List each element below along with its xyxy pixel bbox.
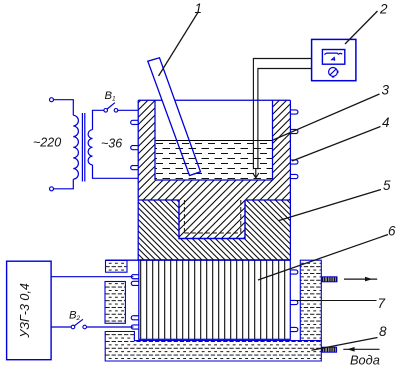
crucible body hatched bbox=[138, 100, 290, 200]
heater hook left 1 bbox=[131, 120, 139, 124]
liquid surface line bbox=[155, 140, 273, 142]
wire UZG top bbox=[51, 276, 133, 278]
svg-text:7: 7 bbox=[378, 296, 386, 311]
liquid in crucible bbox=[155, 141, 273, 180]
svg-text:Вода: Вода bbox=[350, 353, 380, 368]
winding hook left b bbox=[131, 316, 139, 320]
svg-text:~220: ~220 bbox=[33, 136, 61, 150]
svg-text:8: 8 bbox=[379, 324, 387, 339]
wire secondary bottom to furnace bbox=[93, 165, 139, 178]
svg-text:~36: ~36 bbox=[101, 137, 122, 151]
svg-text:1: 1 bbox=[195, 1, 203, 16]
pipe bottom bbox=[322, 347, 337, 352]
leader 3 bbox=[273, 94, 380, 140]
wire primary top bbox=[54, 100, 74, 116]
svg-text:3: 3 bbox=[382, 83, 390, 98]
heater hook left 3 bbox=[131, 166, 139, 170]
winding 6 region bbox=[139, 260, 290, 340]
heater hook left 2 bbox=[131, 146, 139, 150]
arrow water in bbox=[343, 348, 379, 350]
recess outline bbox=[179, 200, 245, 239]
water jacket left A bbox=[106, 260, 128, 272]
heater hook right 4 bbox=[290, 174, 298, 178]
wire secondary top to switch bbox=[93, 110, 104, 129]
block 5 hatched bbox=[138, 200, 290, 260]
switch B2 bbox=[71, 325, 75, 329]
instrument meter face bbox=[322, 50, 344, 65]
instrument U1 box bbox=[312, 39, 356, 80]
leader 1 bbox=[159, 12, 199, 77]
transformer T1 primary winding bbox=[73, 115, 78, 179]
winding hook right a bbox=[290, 270, 298, 274]
water jacket bottom band C bbox=[105, 332, 321, 362]
pipe top bbox=[322, 277, 337, 282]
heater hook right 3 bbox=[290, 160, 298, 164]
block 5 bottom line bbox=[106, 259, 291, 261]
meter scale arc bbox=[324, 53, 342, 54]
wire switch B2 to winding bbox=[87, 326, 134, 328]
thermocouple tip arrow bbox=[253, 169, 259, 178]
heater hook right 2 bbox=[290, 129, 298, 133]
svg-text:2: 2 bbox=[379, 2, 388, 17]
knob bbox=[337, 71, 339, 73]
svg-text:4: 4 bbox=[382, 115, 390, 130]
recess stub hatched bbox=[179, 200, 245, 239]
leader 5 bbox=[279, 190, 381, 221]
leader 6 bbox=[258, 235, 388, 281]
wire primary bottom bbox=[54, 179, 74, 189]
transformer T1 secondary winding bbox=[88, 130, 92, 165]
arrow water out bbox=[344, 278, 377, 280]
svg-text:5: 5 bbox=[383, 178, 391, 193]
water jacket right D bbox=[300, 260, 321, 340]
svg-text:УЗГ-3 0,4: УЗГ-3 0,4 bbox=[18, 283, 32, 339]
thermocouple wires bbox=[253, 59, 311, 170]
wire UZG bottom to switch bbox=[51, 326, 71, 328]
UZG wire top hook bbox=[131, 275, 139, 279]
leader 4 bbox=[292, 127, 381, 162]
heater hook right 1 bbox=[290, 110, 298, 114]
meter needle bbox=[332, 57, 336, 61]
leader 2 bbox=[345, 11, 378, 44]
line between crucible and block 5 bbox=[138, 199, 290, 201]
UZG generator box bbox=[7, 261, 52, 360]
transformer T1 core bbox=[82, 113, 84, 182]
winding hook right b bbox=[290, 300, 298, 304]
wire switch to furnace bbox=[118, 109, 138, 111]
transformer T1 primary terminal top bbox=[50, 98, 54, 102]
hidden stub edges dashed bbox=[184, 200, 240, 233]
winding hook right c bbox=[290, 327, 298, 331]
leader 8 bbox=[312, 338, 378, 351]
UZG wire bottom hook bbox=[131, 325, 139, 329]
rod 1 (stirrer) bbox=[148, 58, 201, 176]
vessel blue outline bbox=[138, 100, 290, 260]
svg-text:6: 6 bbox=[388, 224, 396, 239]
leader 7 bbox=[296, 300, 377, 302]
rim eraser under rod bbox=[162, 99, 174, 101]
water jacket left B bbox=[105, 282, 125, 324]
transformer T1 primary terminal bottom bbox=[50, 187, 54, 191]
winding hook left a bbox=[131, 281, 139, 285]
switch B1 bbox=[104, 109, 108, 113]
